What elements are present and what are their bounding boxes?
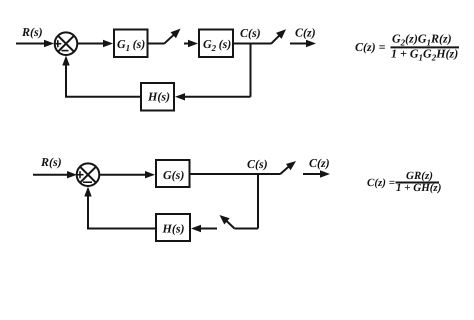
summing junction bottom [77,163,100,186]
wire G2 to sampler S2 [233,43,271,45]
svg-text:GR(z): GR(z) [406,170,433,182]
block H top [141,83,174,111]
svg-text:G2(z)G1R(z): G2(z)G1R(z) [392,32,452,48]
wire input bottom [33,174,70,176]
wire arrow into H bottom [198,228,217,230]
svg-text:1 + G1G2H(z): 1 + G1G2H(z) [391,47,458,63]
svg-text:C(z): C(z) [309,156,330,170]
svg-text:G1 (s): G1 (s) [117,37,145,53]
svg-text:C(s): C(s) [240,26,261,40]
svg-text:C(z) =: C(z) = [367,177,395,189]
wire feedback from tap [235,228,259,230]
svg-text:R(s): R(s) [40,155,62,169]
wire H to summer top [66,61,141,97]
equation 1 [355,32,458,63]
svg-text:G(s): G(s) [163,168,184,182]
sampler S2 [271,34,281,44]
equation 2 [367,170,441,194]
wire G1 to sampler S1 [148,43,165,45]
wire feedback horizontal into H [182,96,251,98]
wire summer to G [99,174,148,176]
sampler S3 [280,165,291,174]
wire tap down from C(s) node [250,44,252,97]
block G2 [199,30,233,58]
wire tap down bottom [257,174,259,229]
wire arrow into G2 [184,43,191,45]
wire output arrow C(z) bottom [303,173,323,175]
svg-text:1 + GH(z): 1 + GH(z) [396,182,441,194]
summing junction top [55,32,78,55]
svg-text:C(s): C(s) [247,157,268,171]
svg-text:H(s): H(s) [162,222,185,236]
block G1 [114,30,148,58]
svg-text:C(z): C(z) [295,26,316,40]
wire summer to G1 [77,43,106,45]
block H bottom [156,214,190,241]
svg-text:G2 (s): G2 (s) [203,37,231,53]
wire G to sampler S3 [190,173,281,175]
wire input top [16,43,47,45]
sampler S4 [225,220,235,229]
wire output arrow C(z) top [290,43,309,45]
svg-text:C(z) =: C(z) = [355,40,386,54]
svg-text:H(s): H(s) [147,90,170,104]
svg-text:R(s): R(s) [21,25,43,39]
block G [156,160,190,187]
wire H to summer bottom [88,192,156,229]
sampler S1 [164,33,176,44]
